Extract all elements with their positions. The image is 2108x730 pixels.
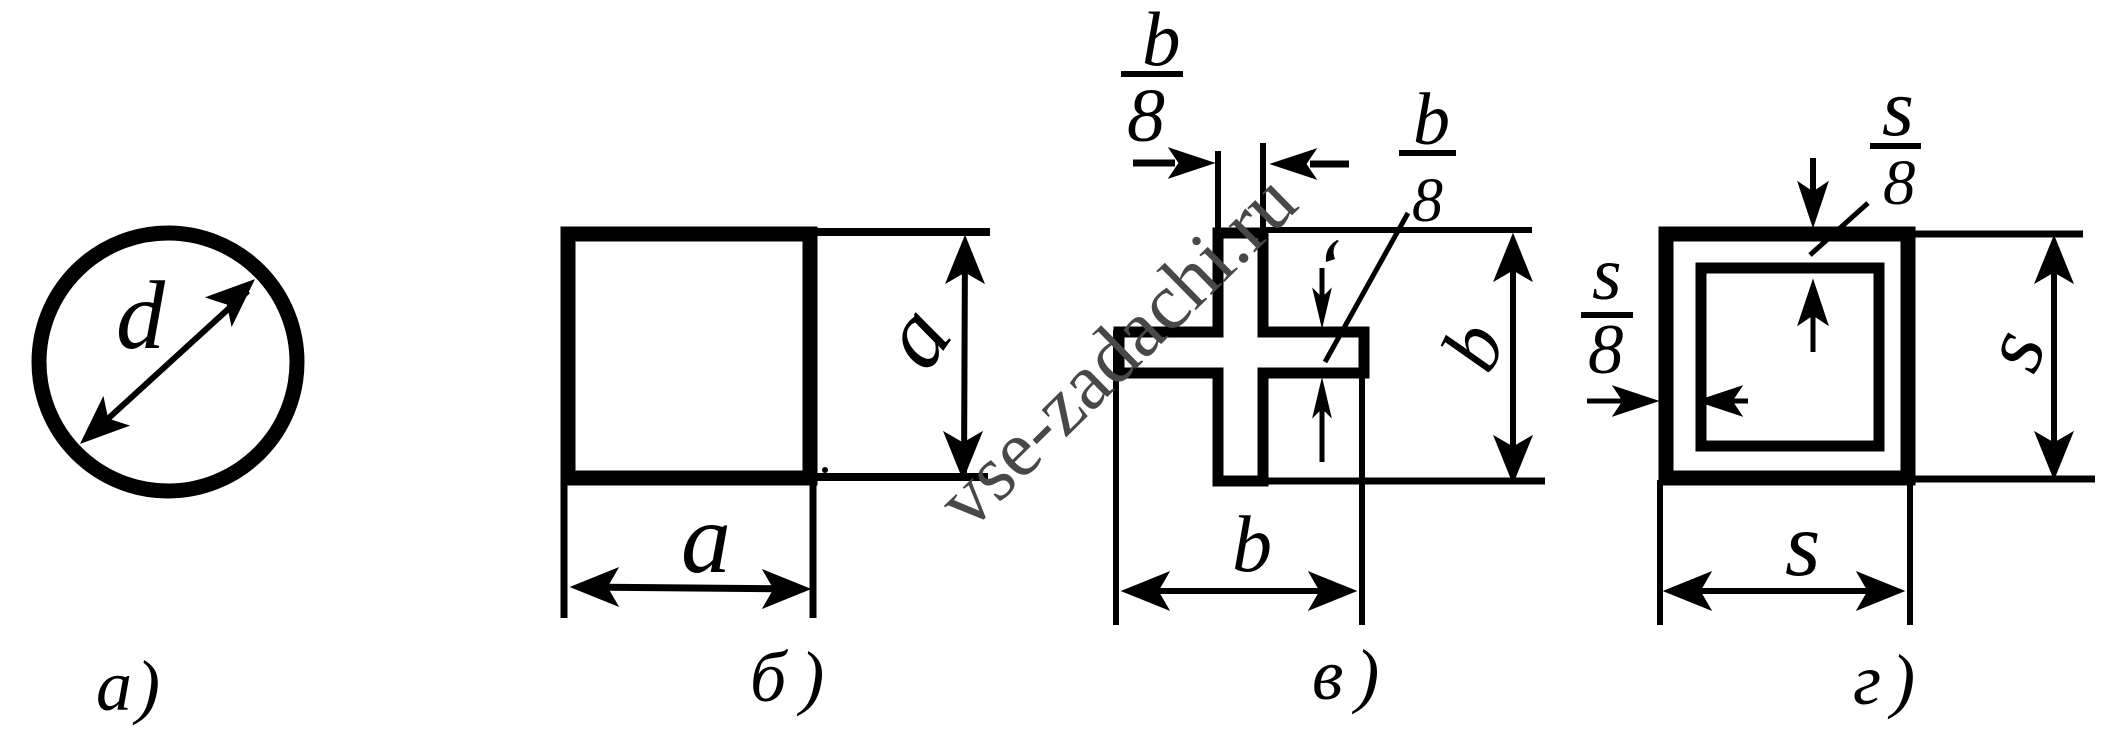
left lower extension line g: [1657, 480, 1663, 625]
right lower extension line g: [1907, 480, 1913, 625]
fraction s/8 left g: [1581, 232, 1633, 389]
arrow pointing left at inner left wall g: [1697, 386, 1748, 416]
svg-text:8: 8: [1588, 311, 1624, 389]
section b: square outline: [568, 234, 810, 478]
top extension line g: [1908, 231, 2083, 238]
small down arrow above arm: [1313, 240, 1339, 327]
leader line s/8 to top wall: [1810, 203, 1868, 255]
horizontal dimension s arrow: [1664, 572, 1904, 610]
svg-text:г): г): [1853, 640, 1925, 720]
dimension arrow d (diagonal diameter): [68, 266, 266, 457]
vertical dimension b arrow: [1494, 234, 1532, 483]
svg-text:s: s: [1882, 62, 1914, 153]
svg-text:a: a: [681, 483, 731, 594]
svg-text:8: 8: [1412, 167, 1443, 235]
svg-text:b: b: [1232, 501, 1272, 589]
svg-text:d: d: [116, 262, 166, 370]
svg-text:8: 8: [1883, 147, 1916, 219]
svg-text:s: s: [1785, 494, 1820, 595]
bottom extension line b: [810, 473, 988, 481]
svg-text:в): в): [1312, 635, 1391, 715]
top extension line b: [810, 228, 990, 236]
vertical dimension a arrow: [944, 236, 984, 479]
section g: outer square: [1666, 234, 1908, 478]
section a: circle outline: [39, 233, 297, 491]
fraction b/8 top-right: [1399, 79, 1456, 235]
left lower extension line b: [561, 478, 568, 618]
vertical dimension s arrow: [2035, 236, 2073, 479]
right lower extension line b: [810, 478, 817, 618]
svg-text:s: s: [1592, 232, 1622, 316]
horizontal dimension b arrow: [1122, 572, 1356, 610]
bottom extension line g: [1908, 476, 2095, 483]
svg-text:b: b: [1142, 0, 1181, 82]
down arrow at top wall g: [1798, 158, 1828, 227]
stem right extension up: [1260, 143, 1266, 233]
up arrow below inner top edge g: [1798, 280, 1828, 352]
arrow pointing left at stem right: [1271, 149, 1349, 179]
arrow pointing right at stem left: [1133, 148, 1214, 178]
horizontal dimension a arrow: [571, 568, 810, 608]
arrow pointing right at outer left wall g: [1587, 386, 1658, 416]
left extension line v: [1113, 330, 1119, 625]
stem left extension up: [1215, 151, 1221, 233]
top extension line v: [1263, 227, 1532, 233]
fraction s/8 top g: [1870, 62, 1921, 219]
bottom extension line v: [1263, 478, 1545, 485]
section v: cross outline: [1119, 233, 1364, 481]
fraction b/8 top-left: [1121, 0, 1183, 158]
right extension line v: [1359, 340, 1365, 625]
svg-text:8: 8: [1127, 74, 1165, 158]
svg-text:б): б): [750, 637, 838, 717]
svg-text:а): а): [96, 646, 164, 726]
section g: inner square: [1701, 268, 1879, 446]
svg-text:b: b: [1413, 79, 1450, 161]
small up arrow below arm: [1313, 379, 1331, 462]
stray dot b: [822, 467, 828, 473]
leader line from b/8 to arm: [1325, 213, 1408, 362]
